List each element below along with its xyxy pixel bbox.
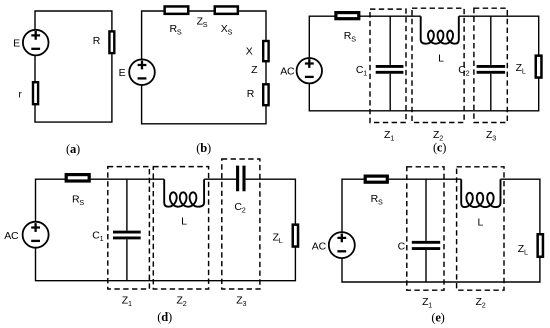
svg-text:R: R <box>93 35 101 47</box>
source AC <box>329 232 355 258</box>
resistor XS <box>215 6 238 13</box>
wire <box>309 16 538 111</box>
source E <box>23 30 49 56</box>
source AC <box>297 58 322 83</box>
impedance box Z2 <box>412 8 464 122</box>
resistor R <box>109 31 114 53</box>
impedance box Z2 <box>457 167 504 290</box>
impedance box Z2 <box>153 167 208 289</box>
resistor ZL <box>293 225 298 247</box>
capacitor C2 <box>477 66 506 72</box>
impedance box Z1 <box>370 9 406 122</box>
resistor ZL <box>536 56 542 78</box>
svg-text:X: X <box>246 45 253 57</box>
capacitor C2 branch wire <box>490 16 492 111</box>
resistor RS <box>165 6 189 13</box>
capacitor C1 <box>412 242 440 248</box>
impedance box Z3 <box>222 159 260 289</box>
capacitor C1 branch wire <box>389 16 391 111</box>
wire <box>142 11 266 124</box>
resistor r <box>33 82 38 104</box>
source E <box>129 59 155 85</box>
svg-text:(c): (c) <box>433 141 446 155</box>
svg-text:(b): (b) <box>196 141 211 155</box>
capacitor C1 <box>113 232 141 238</box>
svg-text:(a): (a) <box>66 142 80 156</box>
source AC <box>23 222 49 248</box>
wire <box>35 11 112 122</box>
capacitor C1 <box>376 66 404 72</box>
svg-text:Z: Z <box>251 64 258 76</box>
svg-text:C: C <box>398 241 406 253</box>
resistor X <box>263 41 268 61</box>
capacitor C1 branch wire <box>425 179 427 282</box>
svg-text:L: L <box>181 216 187 228</box>
svg-text:L: L <box>438 53 444 65</box>
impedance box Z1 <box>108 167 150 289</box>
resistor ZL <box>538 234 543 257</box>
impedance box Z3 <box>474 8 507 122</box>
resistor RS <box>336 13 359 19</box>
svg-text:R: R <box>247 88 255 100</box>
resistor R <box>263 84 268 105</box>
svg-text:AC: AC <box>312 241 327 253</box>
svg-text:(d): (d) <box>157 310 172 324</box>
wire <box>342 179 540 282</box>
svg-text:L: L <box>477 217 483 229</box>
capacitor C1 branch wire <box>126 179 128 281</box>
resistor RS <box>365 176 387 182</box>
svg-text:E: E <box>13 37 20 49</box>
inductor L <box>421 16 459 44</box>
resistor RS <box>66 175 89 181</box>
capacitor C2 <box>238 166 244 192</box>
inductor L <box>461 179 500 207</box>
svg-text:(e): (e) <box>431 311 444 325</box>
inductor L <box>164 179 204 207</box>
svg-text:E: E <box>119 67 126 79</box>
svg-text:AC: AC <box>4 230 19 242</box>
wire <box>36 179 296 281</box>
impedance box Z1 <box>407 167 444 290</box>
svg-text:AC: AC <box>280 65 295 77</box>
